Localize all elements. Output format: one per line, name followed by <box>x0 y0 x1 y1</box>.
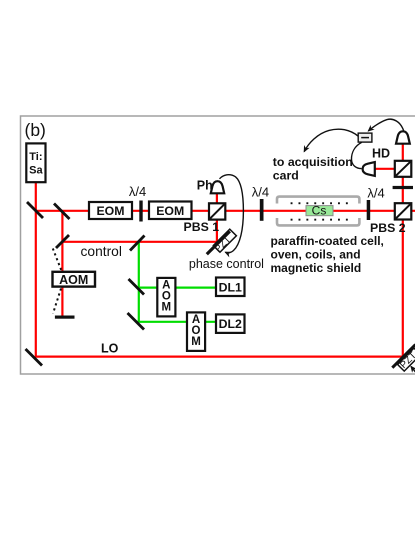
mirror GA for green beam to AOM DL1 <box>129 279 145 295</box>
frame border of panel (b) <box>21 116 415 374</box>
subtractor minus box <box>358 133 372 142</box>
svg-text:EOM: EOM <box>156 204 184 218</box>
svg-text:paraffin-coated cell,: paraffin-coated cell, <box>271 234 384 248</box>
coil dots top row <box>291 202 348 204</box>
wire: red beam PBS1 vertical to Ph and PZT <box>216 193 218 242</box>
wire: red beam Ti:Sa vertical down to LO corner <box>35 182 37 357</box>
svg-text:DL1: DL1 <box>219 280 242 294</box>
wire: red LO horizontal beam <box>35 356 403 358</box>
EOM 2 box <box>149 202 192 220</box>
wire arrow to acquisition card <box>304 129 358 151</box>
mirror M1 below Ti:Sa <box>27 202 43 218</box>
attenuator bar above PBS2 <box>393 186 413 189</box>
PZT mirror assembly bottom right <box>392 345 415 372</box>
HD top detector dome <box>396 131 410 143</box>
cell caption <box>271 234 384 275</box>
EOM 1 box <box>89 202 132 219</box>
DL1 diode laser box <box>216 278 245 297</box>
svg-text:magnetic shield: magnetic shield <box>271 261 362 275</box>
wire from left detector to subtractor <box>351 142 361 168</box>
svg-text:LO: LO <box>101 341 119 355</box>
svg-text:Sa: Sa <box>29 165 43 177</box>
mirror M3 on control line <box>56 235 69 248</box>
mirror GB for green beam to AOM DL2 <box>128 313 145 330</box>
coil dots bottom row <box>291 219 348 221</box>
wire: red control beam horizontal <box>62 241 217 243</box>
svg-text:Ti:: Ti: <box>29 151 42 163</box>
svg-text:PBS 1: PBS 1 <box>184 220 220 234</box>
lambda/4 waveplate bar right of cell <box>367 200 371 220</box>
svg-text:M: M <box>191 336 201 348</box>
paraffin-coated cell outline bottom <box>277 218 359 225</box>
Cs vapour box <box>306 203 333 217</box>
svg-text:HD: HD <box>372 147 390 161</box>
Ti:Sa laser box <box>26 143 45 182</box>
paraffin-coated cell outline top <box>277 197 359 204</box>
svg-text:λ/4: λ/4 <box>367 185 384 200</box>
svg-text:PBS 2: PBS 2 <box>370 221 406 235</box>
wire: red beam HD detector horizontal <box>375 168 403 170</box>
wire arrow to bottom PZT <box>411 366 415 372</box>
wire: green beam vertical <box>138 242 140 322</box>
beamsplitter M2 <box>54 204 70 220</box>
to acquisition card label <box>273 155 353 183</box>
wire: green beam to AOM and DL1 <box>137 287 216 289</box>
wire from top detector to subtractor <box>368 119 403 131</box>
lambda/4 waveplate bar left of cell <box>260 199 264 221</box>
svg-text:EOM: EOM <box>96 204 124 218</box>
wire: green beam to AOM and DL2 <box>137 321 216 323</box>
lambda/4 waveplate bar between EOMs <box>139 201 142 222</box>
svg-text:control: control <box>81 244 122 259</box>
DL2 diode laser box <box>216 314 245 333</box>
svg-text:phase control: phase control <box>189 257 264 271</box>
PBS 1 cube <box>209 203 225 219</box>
svg-text:card: card <box>273 169 299 183</box>
wire: red vertical beam LO up through PBS2 and HD to detector <box>402 144 404 357</box>
svg-text:AOM: AOM <box>59 273 88 287</box>
AOM box vertical 1 <box>157 278 175 317</box>
svg-text:λ/4: λ/4 <box>252 185 269 200</box>
PZT phase-control mirror assembly <box>207 229 237 255</box>
svg-text:M: M <box>162 302 172 314</box>
svg-text:λ/4: λ/4 <box>129 184 146 199</box>
svg-text:DL2: DL2 <box>219 317 242 331</box>
svg-text:to acquisition: to acquisition <box>273 155 353 169</box>
PBS 2 cube <box>395 203 412 219</box>
svg-text:Cs: Cs <box>312 203 327 217</box>
wire: red vertical beam to AOM and dump <box>61 211 63 316</box>
HD 50/50 cube <box>395 161 412 177</box>
dotted diffracted beam out of AOM <box>53 289 61 314</box>
dotted diffracted beam into AOM <box>53 249 62 273</box>
photodiode Ph dome <box>211 181 224 193</box>
AOM box on control beam <box>53 272 96 287</box>
svg-text:Ph: Ph <box>197 179 213 193</box>
svg-text:oven, coils, and: oven, coils, and <box>271 248 361 262</box>
svg-text:(b): (b) <box>25 120 46 140</box>
beam dump below AOM <box>55 316 75 319</box>
mirror LO corner <box>26 349 43 366</box>
mirror M4 green pickoff <box>130 236 145 251</box>
feedback loop arc from Ph to PZT <box>220 175 244 253</box>
wire: red main horizontal beam through EOMs cell to PBS2 <box>36 210 415 212</box>
HD left detector dome <box>363 162 375 176</box>
AOM box vertical 2 <box>187 312 205 351</box>
